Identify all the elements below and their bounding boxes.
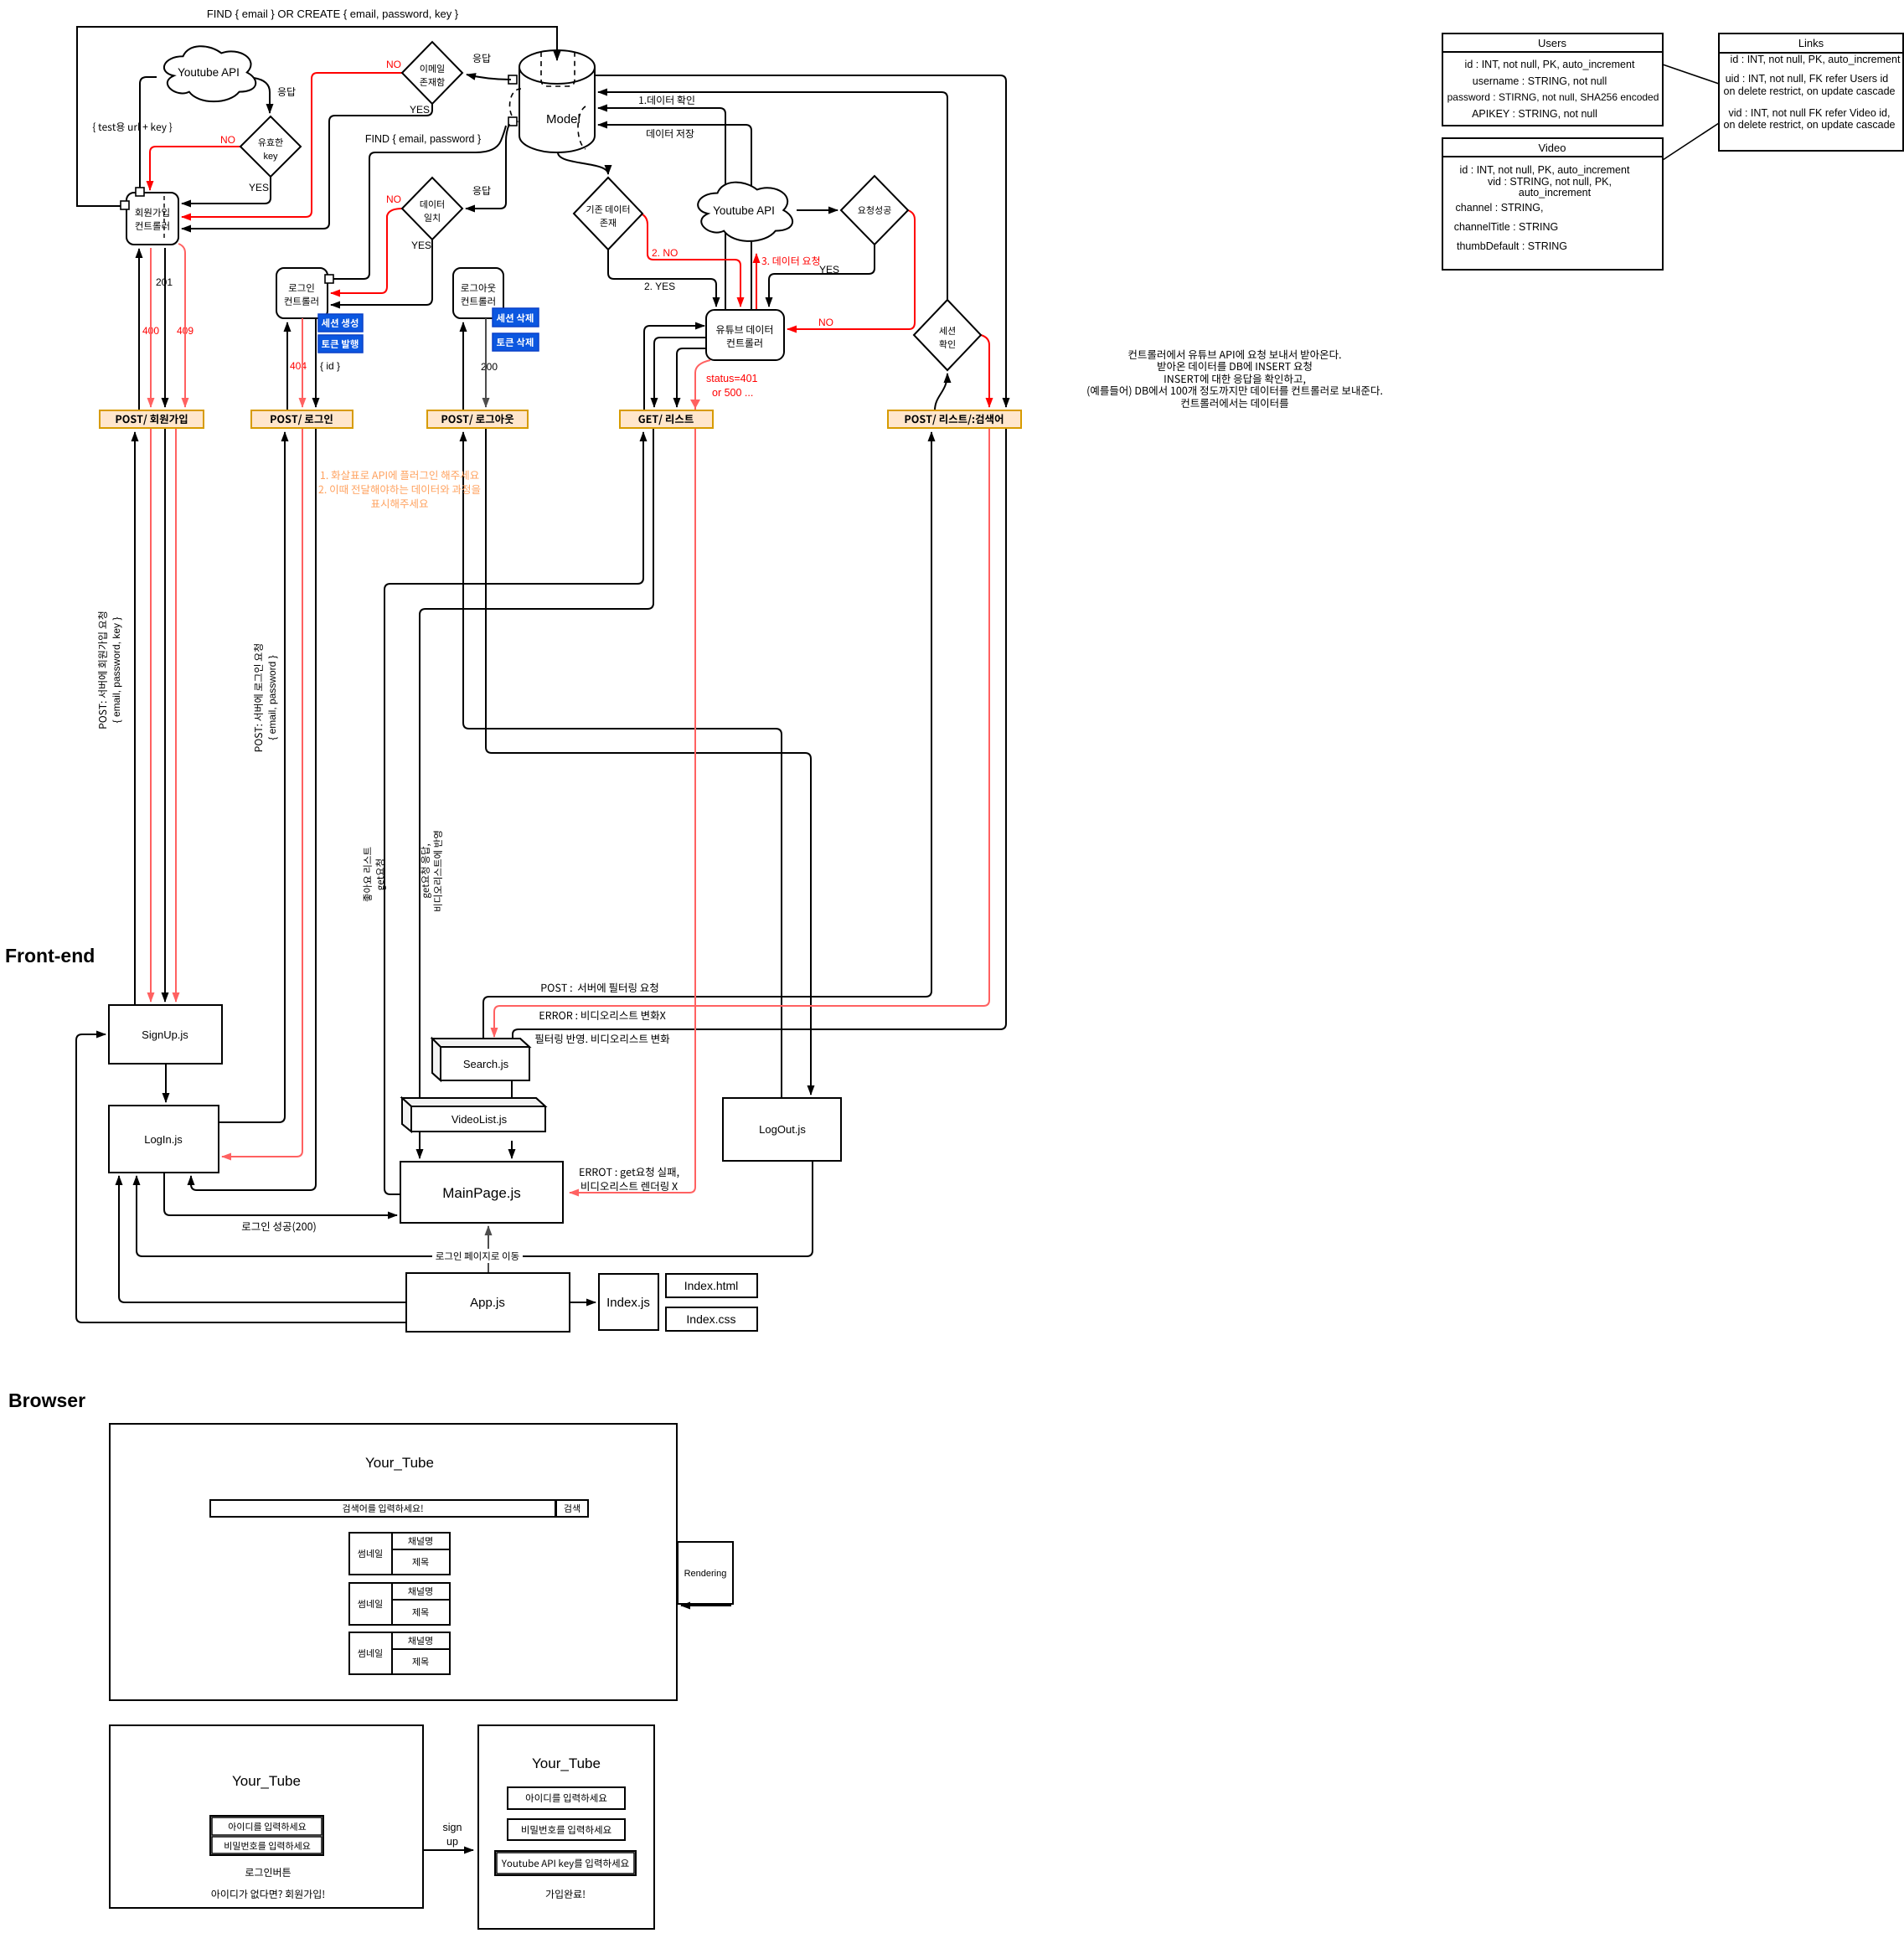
diamond 데이터 일치 [402, 178, 462, 240]
wire emailexists NO red [182, 73, 402, 217]
port signup left [121, 201, 129, 209]
box 회원가입 컨트롤러 [126, 193, 178, 245]
svg-text:Your_Tube: Your_Tube [365, 1455, 434, 1471]
wire search.js filter request up [483, 432, 931, 1039]
wire app.js loop to signup.js [76, 1034, 406, 1322]
svg-text:FIND { email } OR CREATE { ema: FIND { email } OR CREATE { email, passwo… [207, 8, 459, 20]
svg-text:on delete restrict, on update: on delete restrict, on update cascade [1724, 119, 1896, 131]
wire 201 down to signup.js [164, 428, 166, 1002]
svg-text:App.js: App.js [470, 1296, 505, 1310]
svg-text:vid : INT, not null FK refer: vid : INT, not null FK refer Video id, [1729, 107, 1891, 119]
cloud Youtube API 1 [164, 46, 255, 101]
svg-text:up: up [446, 1836, 458, 1848]
label 로그인버튼 [245, 1868, 291, 1877]
wire search.js to videolist.js [511, 1080, 513, 1098]
svg-text:NO: NO [818, 317, 833, 328]
svg-text:SignUp.js: SignUp.js [142, 1028, 188, 1041]
label 응답 3 [473, 186, 491, 195]
svg-text:200: 200 [481, 361, 498, 373]
wire 409 red down [178, 244, 185, 407]
port model upper [508, 75, 517, 84]
badge 세션 생성 [318, 314, 363, 332]
wire 200 down gray [485, 318, 487, 407]
svg-text:Video: Video [1538, 142, 1566, 154]
table Users [1442, 34, 1663, 126]
bar POST/로그인 [251, 410, 353, 428]
svg-text:NO: NO [386, 193, 401, 205]
svg-text:Youtube API: Youtube API [713, 204, 775, 217]
label ERROT get요청 실패 [580, 1168, 679, 1179]
wire model-to-existdata [558, 152, 608, 174]
svg-text:{ email, password, key }: { email, password, key } [111, 617, 122, 724]
svg-text:Your_Tube: Your_Tube [232, 1773, 301, 1789]
cloud Youtube API 2 [698, 183, 792, 241]
wire logout.js up to bar [463, 432, 782, 1098]
wire existdata 2.YES to ytcontroller [608, 250, 716, 307]
wire app.js to mainpage up gray [488, 1226, 489, 1273]
badge 토큰 삭제 [493, 333, 539, 351]
bar POST/리스트/:검색어 [888, 410, 1021, 428]
svg-text:username : STRING, not null: username : STRING, not null [1473, 75, 1607, 87]
diamond 기존 데이터 존재 [574, 178, 642, 250]
svg-text:vid : STRING, not null, PK,: vid : STRING, not null, PK, [1488, 176, 1612, 188]
svg-text:id : INT, not null, PK, auto_: id : INT, not null, PK, auto_increment [1731, 54, 1901, 65]
wire sessioncheck to model (1.데이터 확인) [598, 92, 947, 300]
wire sessioncheck red to bar [981, 335, 989, 407]
svg-text:password : STIRNG, not null, S: password : STIRNG, not null, SHA256 enco… [1447, 91, 1659, 103]
wire 400 red down [150, 248, 152, 407]
svg-text:sign: sign [443, 1822, 462, 1833]
box Rendering [678, 1542, 733, 1604]
label 로그인 페이지로 이동 [432, 1249, 523, 1263]
label 응답 2 [473, 54, 491, 63]
wire login.js up to bar [219, 432, 285, 1122]
wire loginctrl-bar up [286, 322, 288, 410]
svg-text:{ email, password }: { email, password } [266, 655, 278, 740]
wire emailexists YES to signup [182, 104, 432, 229]
bar POST/회원가입 [100, 410, 204, 428]
diamond 이메일 존재함 [402, 42, 462, 104]
box SignUp.js [109, 1005, 222, 1064]
svg-text:Index.html: Index.html [684, 1279, 739, 1292]
wire videolist.js to mainpage [511, 1141, 513, 1158]
wire app.js to index.js [570, 1302, 596, 1303]
box 로그인 컨트롤러 [276, 268, 328, 318]
wire 409 red down to signup.js [175, 428, 177, 1002]
label ERROR 비디오리스트 변화X [540, 1011, 666, 1020]
thumbnail row 3 [349, 1632, 450, 1674]
svg-text:channelTitle : STRING: channelTitle : STRING [1454, 221, 1559, 233]
svg-text:APIKEY : STRING, not null: APIKEY : STRING, not null [1472, 108, 1597, 120]
label rotated POST 회원가입 요청 [98, 612, 122, 729]
svg-text:channel : STRING,: channel : STRING, [1456, 202, 1544, 214]
diamond 세션 확인 [914, 300, 981, 370]
box Index.js [599, 1274, 658, 1330]
input 비밀번호 [508, 1819, 625, 1840]
wire GETbar up to ytcontroller left [644, 326, 704, 410]
badge 토큰 발행 [318, 335, 363, 353]
note annotation text [1087, 350, 1382, 408]
svg-text:auto_increment: auto_increment [1519, 187, 1592, 198]
wire Users-Links [1663, 64, 1719, 84]
label 응답 1 [278, 87, 296, 96]
wire login FIND to model [329, 126, 506, 279]
box Index.css [666, 1307, 757, 1331]
input search field [210, 1500, 555, 1517]
label 회원가입 권유 [212, 1889, 324, 1899]
wire rendering arrow [681, 1605, 731, 1606]
wire existdata 2.NO red [642, 214, 740, 307]
svg-text:2. YES: 2. YES [644, 281, 675, 292]
label rotated get요청 응답 [421, 832, 441, 911]
box App.js [406, 1273, 570, 1332]
table Links [1719, 34, 1903, 151]
diamond 요청성공 [841, 176, 908, 245]
wire logout.js to login.js (로그인 페이지로 이동) [137, 1161, 813, 1256]
svg-text:FIND { email, password }: FIND { email, password } [365, 133, 481, 145]
svg-text:VideoList.js: VideoList.js [451, 1113, 508, 1126]
wire status red to mainpage [570, 360, 710, 1193]
wire reqsuccess NO red to ytcontroller [787, 210, 915, 329]
wire Video-Links [1663, 123, 1719, 160]
svg-text:YES: YES [819, 264, 839, 276]
label rotated 좋아요 리스트 get요청 [363, 848, 385, 902]
input id/pw group [210, 1816, 323, 1855]
wire validkey NO red [150, 147, 240, 190]
wire ytcontroller left down to GETbar b [677, 348, 706, 407]
table Video text [1454, 142, 1630, 252]
wire id down [315, 318, 317, 407]
port login right [325, 275, 333, 283]
box LogOut.js [723, 1098, 841, 1161]
svg-text:on delete restrict, on update: on delete restrict, on update cascade [1724, 85, 1896, 97]
wire GETlist bar to sessioncheck [935, 374, 947, 410]
wire cloud2-to-reqsuccess [797, 209, 838, 211]
svg-text:YES: YES [411, 240, 431, 251]
box 유튜브 데이터 컨트롤러 [706, 310, 784, 360]
svg-text:2. NO: 2. NO [652, 247, 678, 259]
wire 404 red to login.js [222, 428, 302, 1157]
cube Search.js [432, 1039, 529, 1080]
wire model-to-datamatch (응답) [466, 124, 509, 209]
svg-text:YES: YES [249, 182, 269, 193]
svg-text:Rendering: Rendering [684, 1569, 727, 1579]
bar GET/리스트 [620, 410, 713, 428]
wire reqsuccess YES to ytcontroller [769, 245, 875, 307]
wire signup-to-model top loop [77, 27, 557, 206]
wire signup arrow [423, 1849, 473, 1851]
svg-text:key: key [263, 152, 278, 162]
bar POST/로그아웃 [427, 410, 528, 428]
wire datamatch YES to login [331, 240, 432, 305]
junction red arrow into GET bar [690, 400, 700, 409]
wire ytcontroller left down to GETbar a [654, 338, 706, 407]
note orange instructions [318, 471, 480, 508]
svg-text:Your_Tube: Your_Tube [532, 1755, 601, 1771]
label 로그인 성공(200) [242, 1222, 316, 1233]
wire 201 down [164, 248, 166, 407]
label test url key [93, 122, 173, 133]
box LogIn.js [109, 1106, 219, 1173]
wire 404 red down [302, 318, 303, 407]
wire login.js to mainpage (로그인 성공) [164, 1173, 397, 1215]
wire signup.js up to bar [134, 432, 136, 1005]
wire logoutctrl-bar up [462, 322, 464, 410]
diamond 유효한 key [240, 116, 301, 177]
browser main wireframe box [110, 1424, 677, 1700]
label 3.데이터 요청 red [761, 256, 819, 265]
wire mainpage to GETbar up [384, 432, 643, 1194]
svg-text:MainPage.js: MainPage.js [442, 1185, 521, 1201]
label 가입완료 [546, 1889, 585, 1899]
wire id down to login.js bottom [191, 428, 316, 1190]
svg-text:Youtube API: Youtube API [178, 66, 240, 79]
svg-text:NO: NO [386, 59, 401, 70]
wire ytcontroller 3.데이터요청 red [756, 254, 757, 310]
svg-text:or 500 ...: or 500 ... [712, 387, 753, 399]
input api key [495, 1851, 636, 1875]
cylinder Model [519, 67, 595, 152]
browser login wireframe box [110, 1725, 423, 1908]
thumbnail row 2 [349, 1583, 450, 1625]
wire ytcontroller to model (데이터 저장) [598, 125, 751, 310]
wire datamatch NO red [331, 209, 402, 293]
wire filter applied down to search.js [513, 428, 1006, 1039]
svg-text:Index.js: Index.js [606, 1296, 650, 1310]
wire 400 red down to signup.js [150, 428, 152, 1002]
wire validkey YES to signup [182, 177, 271, 204]
svg-text:{ id }: { id } [320, 360, 340, 372]
wire bar down to logout.js [486, 428, 811, 1095]
svg-text:Front-end: Front-end [5, 945, 95, 967]
button 검색 [556, 1500, 588, 1517]
svg-text:NO: NO [220, 134, 235, 146]
badge 세션 삭제 [493, 308, 539, 327]
svg-text:uid : INT, not null, FK refer: uid : INT, not null, FK refer Users id [1726, 73, 1889, 85]
table Links text [1724, 37, 1901, 131]
svg-text:LogIn.js: LogIn.js [144, 1133, 183, 1146]
label 1.데이터 확인 [639, 95, 694, 105]
box 로그아웃 컨트롤러 [453, 268, 503, 318]
port signup top [136, 188, 144, 196]
input 아이디 [508, 1787, 625, 1809]
svg-text:Index.css: Index.css [686, 1312, 735, 1326]
wire cloud1-to-validkey (응답) [254, 78, 270, 113]
table Video [1442, 138, 1663, 270]
wire signup.js to login.js [165, 1064, 167, 1102]
wire error red down to search.js [494, 428, 989, 1037]
wire GETbar down to mainpage [420, 428, 653, 1158]
wire signup-to-cloud1 [140, 77, 157, 193]
svg-text:Model: Model [546, 112, 580, 126]
box Index.html [666, 1274, 757, 1297]
label POST 필터링 요청 [541, 983, 658, 992]
wire model right to POST list bar [595, 75, 1006, 407]
wire model-to-emailexists (응답) [467, 75, 511, 80]
label rotated POST 로그인 요청 [254, 644, 278, 751]
svg-text:LogOut.js: LogOut.js [759, 1123, 806, 1136]
table Users text [1447, 37, 1659, 120]
wire signupctrl-bar up [138, 249, 140, 410]
svg-text:id : INT, not null, PK, auto_: id : INT, not null, PK, auto_increment [1465, 59, 1635, 70]
svg-text:thumbDefault : STRING: thumbDefault : STRING [1457, 240, 1567, 252]
svg-text:404: 404 [290, 360, 307, 372]
svg-text:Browser: Browser [8, 1389, 85, 1411]
wire app.js loop to login.js [119, 1176, 406, 1302]
svg-text:id : INT, not null, PK, auto_: id : INT, not null, PK, auto_increment [1460, 164, 1630, 176]
svg-text:Search.js: Search.js [463, 1058, 509, 1070]
svg-text:Users: Users [1538, 37, 1566, 49]
browser signup wireframe box [478, 1725, 654, 1929]
svg-text:Links: Links [1798, 37, 1824, 49]
label 데이터 저장 [647, 129, 694, 138]
box MainPage.js [400, 1162, 563, 1223]
svg-text:status=401: status=401 [706, 373, 758, 384]
label 필터링 반영 [535, 1034, 669, 1044]
svg-text:YES: YES [410, 104, 430, 116]
port model lower [508, 117, 517, 126]
thumbnail row 1 [349, 1533, 450, 1575]
cube VideoList.js [402, 1098, 545, 1132]
wire ytcontroller to model mid [598, 108, 725, 310]
